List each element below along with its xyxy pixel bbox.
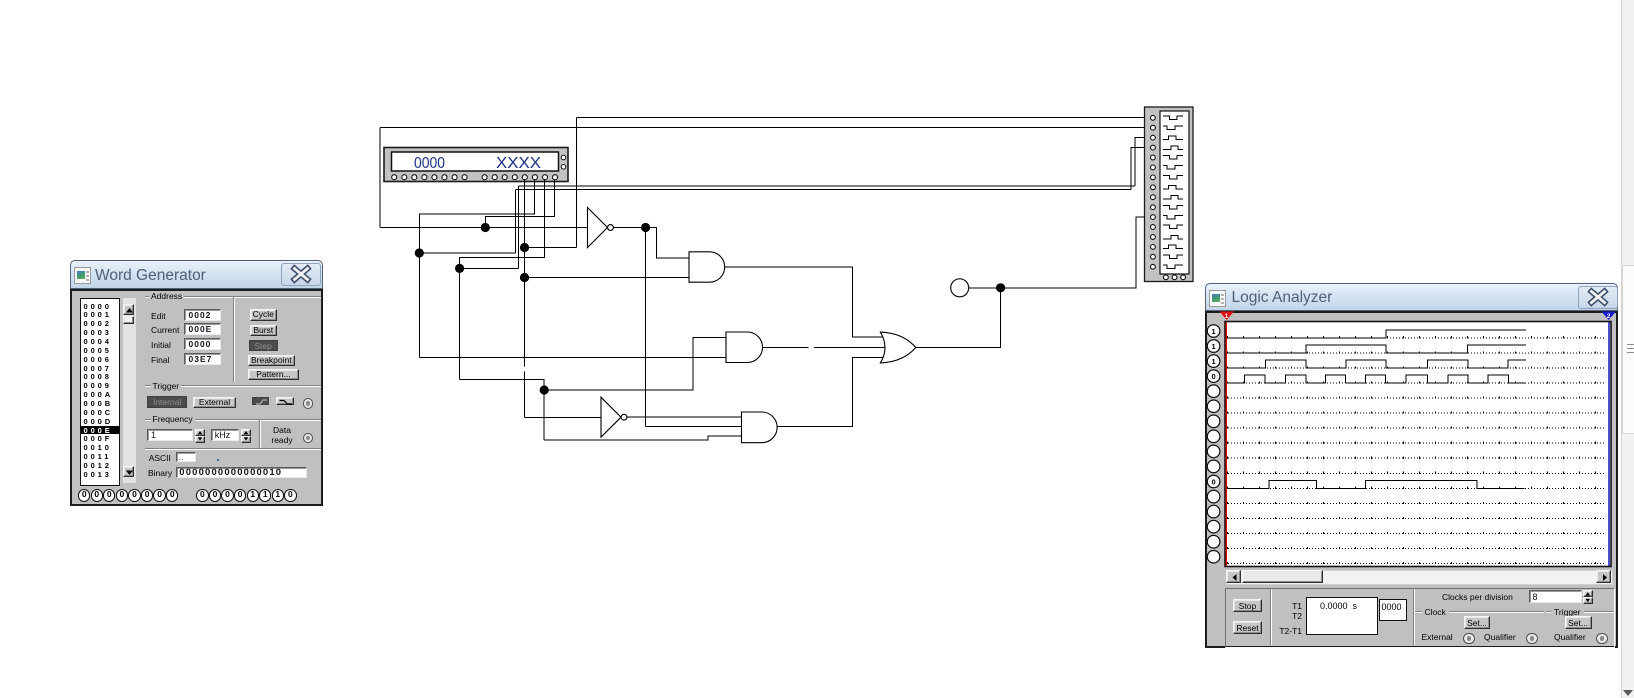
channel circle 8 — [1207, 430, 1220, 443]
wire net-A to AND1 b-input — [525, 277, 690, 279]
wire net-C to T3 — [1135, 138, 1151, 186]
connector terminal 14 — [1151, 245, 1156, 250]
AND gate U3 — [689, 252, 725, 282]
wire net-C long to analyzer — [519, 185, 1136, 187]
inverter U1 (NOT) — [588, 208, 614, 248]
wire NOT1-AND1 a-input — [646, 228, 689, 259]
wire net-C jog — [460, 379, 545, 390]
wire net-A drop2 — [524, 248, 526, 278]
svg-text:0: 0 — [1212, 372, 1216, 381]
wire net-C riser — [518, 186, 520, 268]
connector terminal 7 — [1151, 175, 1156, 180]
connector terminal 10 — [1151, 205, 1156, 210]
wire net-D drop — [418, 253, 420, 357]
connector terminal 15 — [1151, 254, 1156, 259]
wire net-C to AND2 a-input — [544, 337, 726, 390]
inverter U2 (NOT) — [601, 397, 627, 437]
junction node (419,253) — [415, 248, 424, 257]
junction node (485,228) — [481, 223, 490, 232]
wire net-C t3 drop — [460, 180, 545, 268]
OR gate U6 (3-input) — [880, 332, 915, 363]
wire net-A riser — [576, 118, 578, 248]
wire net-D jog right — [419, 252, 515, 254]
wire net-D riser — [515, 190, 517, 254]
wire AND1 out — [725, 267, 886, 337]
wire NOT1 out — [614, 227, 646, 229]
svg-text:1: 1 — [1212, 327, 1216, 336]
connector terminal 13 — [1151, 235, 1156, 240]
connector terminal 12 — [1151, 225, 1156, 230]
wire net-B NOT1 input — [380, 227, 588, 229]
connector terminal 11 — [1151, 215, 1156, 220]
junction node (524,278) — [520, 273, 529, 282]
wire AND3 out — [777, 357, 886, 426]
cursor 1 (red) — [1225, 322, 1227, 566]
channel circle 10 — [1207, 460, 1220, 473]
junction node (524,248) — [520, 243, 529, 252]
connector terminal 6 — [1151, 165, 1156, 170]
channel circle 5 — [1207, 385, 1220, 398]
wire net-A drop3a — [524, 278, 526, 367]
wire net-A to riser — [525, 247, 577, 249]
Logic Analyzer window — [1205, 283, 1618, 311]
wire net-C to AND3 c-input — [544, 436, 741, 440]
wire NOT2-AND3 a-input — [627, 416, 742, 418]
channel circle 7 — [1207, 415, 1220, 428]
svg-text:1: 1 — [1225, 313, 1229, 320]
wire net-A t1 drop — [524, 180, 526, 248]
wire net-D long to analyzer — [516, 189, 1131, 191]
channel circle 11 — [1207, 475, 1220, 488]
trace channel 3 — [1226, 360, 1526, 368]
word generator instrument XWG1 — [384, 148, 568, 182]
svg-text:1: 1 — [1212, 357, 1216, 366]
AND gate U4 — [726, 332, 763, 363]
svg-text:1: 1 — [1212, 342, 1216, 351]
channel circle 4 — [1207, 370, 1220, 383]
word generator output terminals — [78, 489, 90, 501]
channel circle 2 — [1207, 340, 1220, 353]
wire OR out — [916, 288, 1001, 348]
cursor 2 (blue) — [1608, 322, 1610, 566]
svg-text:0000: 0000 — [414, 155, 445, 172]
trace channel 11 — [1226, 480, 1524, 488]
wire AND2 out a — [763, 346, 809, 348]
junction node (1001,288) — [996, 283, 1005, 292]
channel circle 9 — [1207, 445, 1220, 458]
wire node stub — [969, 287, 1001, 289]
wire net-A to analyzer T1 — [577, 117, 1151, 119]
channel circle 12 — [1207, 490, 1220, 503]
connector terminal 1 — [1151, 115, 1156, 120]
wire AND2 out b — [814, 346, 887, 348]
svg-text:0: 0 — [1212, 478, 1216, 487]
channel circle 16 — [1207, 550, 1220, 563]
wire net-D to AND2 b-input — [419, 356, 726, 358]
trace channel 4 — [1226, 375, 1526, 383]
svg-text:2: 2 — [1607, 313, 1611, 320]
wire net-A drop3b — [524, 371, 526, 417]
junction node (460,268) — [455, 264, 464, 273]
connector terminal 16 — [1151, 264, 1156, 269]
connector terminal 4 — [1151, 145, 1156, 150]
wire net-D t2 drop — [419, 180, 534, 253]
Word Generator window — [70, 260, 324, 289]
AND gate U5 (3-input) — [742, 412, 778, 443]
channel circle 13 — [1207, 505, 1220, 518]
channel circle 14 — [1207, 520, 1220, 533]
channel circle 3 — [1207, 355, 1220, 368]
junction node (646,228) — [641, 223, 650, 232]
wire net-B left riser — [379, 128, 381, 228]
channel circle 1 — [1207, 325, 1220, 338]
wire NOT1-AND3 b-input — [646, 426, 742, 428]
output connector node — [951, 279, 969, 297]
wire net-C drop2 — [543, 390, 545, 440]
wire net-B t4 drop — [485, 180, 554, 228]
wire net-D to T4 — [1131, 148, 1151, 190]
logic analyzer connector icon XLA1 — [1145, 107, 1194, 282]
channel circle 15 — [1207, 535, 1220, 548]
connector terminal 8 — [1151, 185, 1156, 190]
wire net-C jog right — [460, 267, 519, 269]
connector terminal 2 — [1151, 125, 1156, 130]
workspace vertical scrollbar — [1621, 0, 1634, 698]
connector terminal 5 — [1151, 155, 1156, 160]
wire NOT1 drop — [645, 228, 647, 427]
junction node (544,390) — [540, 385, 549, 394]
svg-text:XXXX: XXXX — [496, 155, 541, 172]
trace channel 2 — [1226, 345, 1526, 353]
trace channel 1 — [1226, 330, 1526, 338]
connector terminal 3 — [1151, 135, 1156, 140]
wire net-A to NOT2 input — [525, 416, 602, 418]
channel circle 6 — [1207, 400, 1220, 413]
connector terminal 9 — [1151, 195, 1156, 200]
wire out to analyzer — [1001, 217, 1151, 288]
wire net-B to analyzer T2 — [380, 127, 1151, 129]
wire net-C drop — [459, 268, 461, 379]
